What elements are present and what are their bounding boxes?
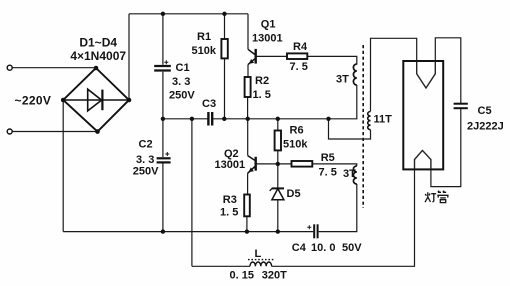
wire D5 anode-cathode	[277, 164, 279, 232]
node mid rail R2 Q2 junction	[246, 117, 250, 121]
lamp bottom filament	[415, 150, 431, 169]
svg-text:3. 3: 3. 3	[136, 154, 154, 166]
svg-text:7. 5: 7. 5	[319, 166, 337, 178]
wire C1 C2 branch	[162, 14, 164, 232]
wire bottom rail right of C4 to 3T bottom	[319, 184, 357, 232]
wire mid rail left of C3	[163, 118, 208, 120]
wire L branch down	[191, 119, 193, 266]
wire bridge plus to top rail	[128, 14, 130, 100]
lamp tube outline	[403, 61, 443, 169]
capacitor C4	[314, 224, 317, 238]
svg-text:R3: R3	[223, 194, 237, 206]
wire Q1 emitter to R2	[247, 65, 249, 77]
svg-text:10. 0: 10. 0	[311, 242, 335, 254]
resistor R5	[292, 161, 313, 167]
svg-text:C4: C4	[292, 242, 307, 254]
wire bottom lamp line left of L	[192, 265, 250, 267]
diode D5	[270, 188, 284, 200]
svg-text:1. 5: 1. 5	[220, 207, 238, 219]
node mid rail R1 junction	[222, 117, 226, 121]
node mid rail L branch junction	[190, 117, 194, 121]
capacitor C5	[454, 104, 468, 109]
wire lamp upper-right pin to C5 top	[435, 38, 461, 103]
node bridge bottom corner	[95, 129, 100, 134]
wire 11T bottom return to mid rail	[329, 119, 371, 139]
svg-text:13001: 13001	[252, 32, 283, 44]
resistor R3	[244, 195, 250, 217]
capacitor C3	[208, 112, 212, 126]
svg-text:250V: 250V	[133, 165, 159, 177]
wire AC lower input	[12, 131, 97, 133]
svg-text:R1: R1	[197, 31, 211, 43]
svg-text:3T: 3T	[343, 168, 356, 180]
svg-text:L: L	[255, 248, 262, 260]
node mid rail R6 junction	[276, 117, 280, 121]
inductor L	[250, 262, 272, 266]
resistor R2	[245, 77, 251, 97]
svg-text:4×1N4007: 4×1N4007	[70, 49, 126, 63]
node bottom rail C2 junction	[161, 229, 165, 233]
svg-text:11T: 11T	[374, 114, 393, 126]
svg-text:13001: 13001	[215, 159, 246, 171]
node top rail C1 junction	[161, 12, 165, 16]
winding 11T	[368, 112, 371, 130]
node Q2 base D5 junction	[276, 162, 280, 166]
wire mid rail right of C3 to 3T top	[213, 85, 357, 119]
label lamp 灯管	[425, 191, 449, 203]
svg-text:~220V: ~220V	[15, 94, 52, 108]
bridge rectifier D1-D4 diamond	[63, 68, 129, 132]
polarity plus of C4	[307, 225, 311, 229]
node bottom rail D5 junction	[276, 229, 280, 233]
svg-text:C1: C1	[176, 62, 190, 74]
svg-text:0. 15: 0. 15	[230, 270, 254, 282]
svg-text:R2: R2	[255, 75, 269, 87]
wire R4 to 3T top winding	[307, 56, 357, 64]
winding 3T upper	[353, 64, 356, 85]
terminal lower AC input	[7, 129, 12, 134]
wire R3 to bottom rail	[246, 216, 248, 231]
svg-text:Q2: Q2	[224, 148, 239, 160]
wire R1 branch	[224, 14, 226, 119]
wire bottom rail left of C4	[63, 231, 313, 233]
wire Q1 base to R4	[257, 55, 288, 57]
capacitor C2	[157, 158, 171, 162]
svg-text:250V: 250V	[169, 89, 195, 101]
wire top rail	[129, 13, 248, 15]
svg-text:C3: C3	[202, 98, 216, 110]
node bridge top corner	[94, 66, 99, 71]
wire R2 to mid rail	[247, 97, 249, 119]
wire Q2 emitter to R3	[247, 173, 249, 194]
svg-text:3. 3: 3. 3	[172, 76, 190, 88]
wire Q2 collector	[247, 119, 249, 156]
node mid rail 11T junction	[326, 117, 330, 121]
node mid rail C1 C2 junction	[161, 117, 165, 121]
wire bridge minus down left side	[62, 100, 64, 232]
svg-text:320T: 320T	[262, 270, 287, 282]
terminal upper AC input	[7, 65, 12, 70]
wire 11T top to lamp upper-left pin	[371, 38, 417, 111]
transistor Q2	[248, 156, 256, 174]
svg-text:50V: 50V	[342, 242, 362, 254]
svg-text:7. 5: 7. 5	[290, 61, 308, 73]
resistor R4	[287, 53, 307, 59]
svg-text:Q1: Q1	[261, 19, 276, 31]
svg-text:1. 5: 1. 5	[253, 89, 271, 101]
svg-text:R4: R4	[293, 41, 308, 53]
svg-text:C5: C5	[478, 105, 492, 117]
polarity plus of C2	[165, 152, 169, 156]
transistor Q1	[248, 49, 256, 65]
svg-text:510k: 510k	[192, 45, 217, 57]
wire Q1 collector	[247, 14, 249, 50]
transformer core dashed line	[362, 45, 364, 208]
lamp top filament	[417, 62, 436, 89]
svg-text:510k: 510k	[283, 138, 308, 150]
resistor R6	[275, 131, 281, 151]
node bottom rail R3 junction	[245, 229, 249, 233]
wire R6 top	[277, 119, 279, 131]
svg-text:R6: R6	[290, 124, 304, 136]
resistor R1	[221, 39, 227, 58]
inductor L core dotted	[248, 259, 274, 261]
wire C5 bottom to lamp lower-right pin	[431, 109, 461, 187]
svg-text:3T: 3T	[336, 74, 349, 86]
wire R5 to 3T bottom winding	[312, 164, 357, 166]
node bridge left corner	[61, 98, 66, 103]
node top rail R1 junction	[222, 12, 226, 16]
capacitor C1	[154, 66, 171, 71]
wire Q2 base to R5	[257, 163, 292, 165]
wire AC upper input	[12, 67, 96, 69]
svg-text:C2: C2	[139, 139, 153, 151]
node bridge right corner	[127, 98, 132, 103]
wire R6 bottom to base node	[277, 150, 279, 164]
svg-text:R5: R5	[321, 152, 335, 164]
svg-text:D5: D5	[287, 188, 301, 200]
polarity plus of C1	[164, 60, 168, 64]
wire bottom lamp line right of L to lamp pin	[272, 169, 415, 266]
svg-text:2J222J: 2J222J	[467, 121, 504, 133]
bridge internal diode symbol	[63, 89, 129, 111]
winding 3T lower	[353, 166, 356, 184]
svg-text:D1~D4: D1~D4	[79, 35, 117, 49]
